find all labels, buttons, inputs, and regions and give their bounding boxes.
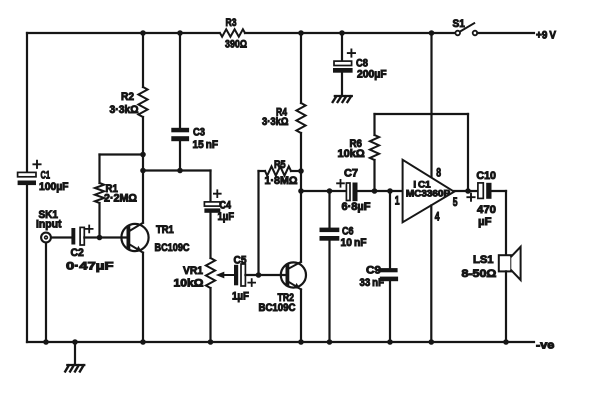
junction R5 tap xyxy=(256,272,262,278)
junction VR1 bottom rail xyxy=(208,339,214,345)
junction TR1 emitter rail xyxy=(140,339,146,345)
potentiometer VR1 xyxy=(174,258,216,342)
junction R4-R5 xyxy=(298,168,304,174)
wire C10 to LS1 xyxy=(492,191,507,255)
svg-text:MC3360P: MC3360P xyxy=(406,188,451,199)
svg-text:C8: C8 xyxy=(356,58,368,70)
wire TR1 emitter to rail xyxy=(142,253,144,342)
wire C6 lower xyxy=(328,241,330,342)
capacitor C4 xyxy=(204,171,234,224)
svg-text:C4: C4 xyxy=(220,199,232,211)
wire VR1 wiper xyxy=(216,272,234,279)
junction R6 tap xyxy=(372,188,378,194)
wire bottom -ve rail xyxy=(27,341,534,343)
wire ground stub xyxy=(74,342,76,365)
wire output pin5 xyxy=(454,190,478,192)
svg-text:33 nF: 33 nF xyxy=(360,277,385,289)
svg-text:R5: R5 xyxy=(274,159,286,171)
svg-text:+9 V: +9 V xyxy=(536,30,557,42)
wire pin8 supply xyxy=(430,33,432,178)
junction LS1 bottom rail xyxy=(503,339,509,345)
svg-text:Input: Input xyxy=(36,219,62,231)
wire R2 to TR1 collector xyxy=(142,117,144,223)
svg-text:S1: S1 xyxy=(453,18,465,30)
svg-text:C2: C2 xyxy=(71,247,84,259)
wire R2 from rail xyxy=(142,33,144,87)
svg-text:C3: C3 xyxy=(193,127,205,139)
transistor TR2 xyxy=(259,262,307,314)
svg-text:VR1: VR1 xyxy=(183,265,203,277)
svg-text:8-50Ω: 8-50Ω xyxy=(462,268,497,280)
resistor R4 xyxy=(262,103,306,133)
junction C9 tap xyxy=(387,188,393,194)
op-amp IC1 xyxy=(403,160,455,223)
pin label 4 xyxy=(435,211,440,223)
svg-text:5: 5 xyxy=(453,197,458,209)
capacitor C7 xyxy=(337,168,371,214)
wire pin4 to rail xyxy=(430,206,432,343)
resistor R3 xyxy=(220,17,247,51)
svg-text:C1: C1 xyxy=(41,170,51,182)
wire R4 to pin1 node xyxy=(300,133,302,262)
svg-text:C10: C10 xyxy=(476,170,496,182)
junction collector node xyxy=(140,168,146,174)
pin label 1 xyxy=(395,195,400,207)
svg-text:µF: µF xyxy=(478,216,492,228)
wire SK1 to C2 xyxy=(51,236,71,238)
svg-text:3·3kΩ: 3·3kΩ xyxy=(262,116,289,128)
junction C3 bottom xyxy=(177,168,183,174)
svg-text:BC109C: BC109C xyxy=(259,302,296,314)
svg-text:0·47µF: 0·47µF xyxy=(66,260,114,272)
svg-text:1µF: 1µF xyxy=(232,291,249,303)
node +9V label xyxy=(536,30,557,42)
pin label 5 xyxy=(453,197,458,209)
junction R1-R2 xyxy=(140,152,146,158)
wire pin1 node left xyxy=(301,190,347,192)
wire C9 lower xyxy=(389,281,391,342)
wire C6 upper xyxy=(328,191,330,228)
svg-text:8: 8 xyxy=(436,168,441,180)
svg-text:TR1: TR1 xyxy=(156,224,174,236)
svg-text:1·8MΩ: 1·8MΩ xyxy=(265,175,298,187)
junction C3 top rail xyxy=(177,30,183,36)
svg-text:200µF: 200µF xyxy=(357,69,387,81)
svg-text:10kΩ: 10kΩ xyxy=(174,277,204,289)
svg-text:10kΩ: 10kΩ xyxy=(338,148,365,160)
capacitor C5 xyxy=(232,254,255,302)
svg-text:C5: C5 xyxy=(234,254,247,266)
capacitor C1 xyxy=(18,161,69,193)
wire R4 from rail xyxy=(300,33,302,103)
junction R4 top rail xyxy=(298,30,304,36)
svg-text:-ve: -ve xyxy=(536,340,554,352)
svg-text:15 nF: 15 nF xyxy=(193,139,219,151)
wire C4 to VR1 xyxy=(209,213,211,258)
svg-text:R3: R3 xyxy=(226,17,237,29)
ground symbol bottom xyxy=(65,365,84,372)
svg-text:C9: C9 xyxy=(366,264,381,276)
svg-text:3·3kΩ: 3·3kΩ xyxy=(110,104,139,116)
transistor TR1 xyxy=(121,223,189,254)
wire left rail lower xyxy=(26,185,28,342)
svg-text:C6: C6 xyxy=(342,226,354,238)
wire pin1 node right xyxy=(358,190,403,192)
resistor R1 xyxy=(95,155,137,238)
svg-text:390Ω: 390Ω xyxy=(225,39,247,51)
wire C9 upper xyxy=(389,191,391,268)
junction R2 top rail xyxy=(140,30,146,36)
wire TR2 emitter to rail xyxy=(300,289,302,342)
capacitor C2 xyxy=(66,226,114,273)
wire C5 to TR2 base xyxy=(245,274,287,276)
junction C9 bottom rail xyxy=(387,339,393,345)
resistor R2 xyxy=(110,87,148,117)
loudspeaker LS1 xyxy=(462,247,521,280)
junction C6 tap xyxy=(327,188,333,194)
wire C8 from rail xyxy=(341,33,343,61)
junction pin1 wire start xyxy=(298,188,304,194)
wire R6 feedback top xyxy=(375,113,469,115)
svg-text:1: 1 xyxy=(395,195,400,207)
junction pin8 top rail xyxy=(429,30,435,36)
svg-text:4: 4 xyxy=(435,211,440,223)
svg-text:470: 470 xyxy=(477,204,496,216)
junction feedback output xyxy=(465,188,471,194)
svg-text:1µF: 1µF xyxy=(218,211,235,223)
wire top +9V rail right section xyxy=(245,32,455,34)
junction SK1 ground xyxy=(43,339,49,345)
svg-text:R2: R2 xyxy=(121,91,134,103)
wire LS1 to rail xyxy=(505,271,507,342)
node -ve label xyxy=(536,340,554,352)
wire top +9V rail left section xyxy=(27,32,219,34)
svg-text:10 nF: 10 nF xyxy=(341,237,367,249)
capacitor C3 xyxy=(171,127,218,151)
wire C3 lower xyxy=(179,141,181,170)
wire collector node to C4 xyxy=(143,169,211,171)
wire feedback down to output xyxy=(467,114,469,191)
wire C2 to TR1 base xyxy=(84,236,128,238)
junction pin4 bottom rail xyxy=(429,339,435,345)
wire left rail upper xyxy=(26,33,28,173)
capacitor C8 xyxy=(333,50,387,81)
wire SK1 to ground rail xyxy=(45,243,47,342)
pin label 8 xyxy=(436,168,441,180)
ground symbol C8 xyxy=(333,96,352,102)
junction C6 bottom rail xyxy=(327,339,333,345)
svg-text:100µF: 100µF xyxy=(39,181,69,193)
wire R5 left leg xyxy=(257,171,259,275)
wire C3 upper xyxy=(179,33,181,128)
wire +9V supply stub xyxy=(477,32,534,34)
junction C8 top rail xyxy=(339,30,345,36)
svg-text:C7: C7 xyxy=(344,168,358,180)
wire R1 top to collector line xyxy=(100,153,144,155)
resistor R5 xyxy=(259,159,302,187)
svg-text:2·2MΩ: 2·2MΩ xyxy=(104,193,137,205)
svg-text:LS1: LS1 xyxy=(473,254,494,266)
junction TR2 emitter rail xyxy=(298,339,304,345)
capacitor C9 xyxy=(360,264,399,289)
junction ground stub rail xyxy=(72,339,78,345)
capacitor C10 xyxy=(467,170,496,228)
junction R1 base xyxy=(97,235,103,241)
resistor R6 xyxy=(338,114,380,191)
switch S1 xyxy=(453,18,478,35)
capacitor C6 xyxy=(320,226,367,250)
connector SK1 input jack xyxy=(36,209,62,242)
svg-text:BC109C: BC109C xyxy=(155,242,190,254)
svg-text:6·8µF: 6·8µF xyxy=(342,201,371,213)
wire C8 to ground xyxy=(341,73,343,96)
